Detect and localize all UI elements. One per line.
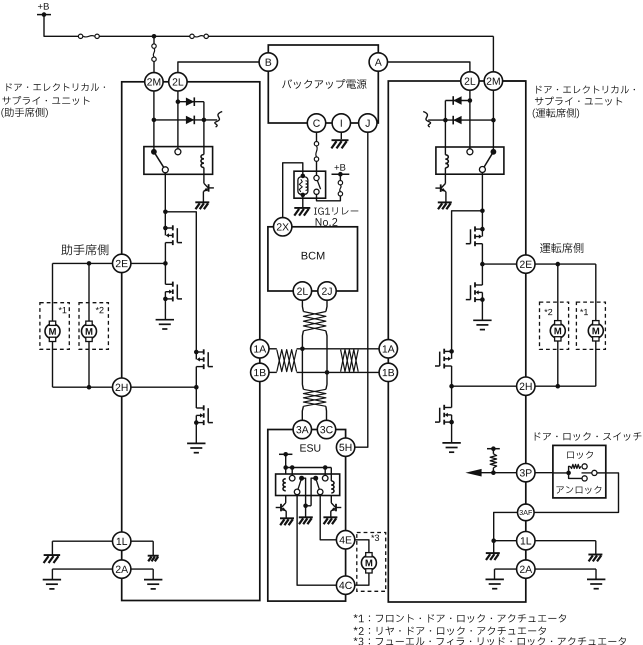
wire BCM 2J down [326,291,327,312]
junction 2H right [449,384,454,389]
label left unit line3 [1,108,47,118]
junction diode out right [443,118,448,123]
wire diode row2 right [428,119,493,121]
pin 3A ESU [293,420,311,438]
left relay output contact [162,167,168,173]
right relay output contact [479,167,485,173]
wire motor *2 right feed [557,264,559,321]
junction left 2L diode row [176,99,181,104]
wire lock common [553,472,569,474]
junction right 2L diode row [468,98,473,103]
wire 3P internal [481,472,526,474]
wire 2E internal [122,262,166,264]
inline connector pair on +B rail (left) [78,34,99,38]
wire right 2L column [469,81,471,149]
wire drop to left 2M with connector [152,36,156,82]
label passenger side [61,244,108,255]
wire branch to pair2 right [452,211,483,352]
backup power unit box [268,45,378,123]
wire BCM 2X to IG1 coil [283,163,303,227]
right relay fixed contact [467,149,473,155]
wire left switch out [164,172,166,228]
dashed box actuator *1 right [576,302,605,349]
wire motor *2 left return [88,341,90,387]
wire I to ground [340,123,342,139]
label *2 left [96,307,104,313]
MOSFET Q3 right [435,349,454,369]
wire motor *2 left feed [88,263,90,321]
diode D2 right [453,116,461,125]
wire right 2M column [492,81,494,152]
label backup power [282,79,366,89]
power bar 3P pull-up [487,446,500,451]
motor M *2 right [550,321,565,341]
MOSFET Q4 right [435,405,454,425]
junction right switch out [480,209,485,214]
power +B for IG1 [332,164,350,176]
right door electrical supply unit box [388,81,526,602]
wire 2H internal right [452,385,526,387]
wire ESU coil L down [285,496,287,503]
wire Q2 to ground right [481,300,483,320]
wire to coil right [444,101,446,155]
wire diode row1 [178,101,204,103]
dashed box actuator *2 right [540,302,569,349]
node 1B horizontal wire [297,371,341,373]
door lock switch box [553,445,606,498]
power bar in ESU [279,452,292,457]
pin 1L left [113,532,131,550]
label BCM [302,252,325,260]
motor M *1 right [588,321,603,341]
junction 2H left [194,385,199,390]
label door lock switch [535,432,642,441]
wire ESU pivots tied [302,478,316,506]
junction rail left coil [283,465,288,470]
wire branch to pair2 [165,212,196,352]
ground right relay [438,202,452,209]
label right unit line2 [535,97,622,106]
pin 2H left [113,378,131,396]
ESU relay coil R [331,481,334,493]
wire 2H external right [526,385,596,387]
ESU relay coil L [283,479,286,491]
arrow continuation 3P [465,469,481,477]
junction 3AF 1L [491,538,496,543]
left door electrical supply unit box [122,82,260,601]
junction motor *2 left bottom [87,385,92,390]
transistor right relay [435,184,446,192]
wire to ground ESU right [330,511,332,517]
pin 3P right [517,464,535,482]
label *1 right [580,309,588,315]
left relay coil [201,155,204,168]
wire ESU coil R down [330,496,332,503]
junction left 2M diode row [152,118,157,123]
wire motor *3 to 4C [346,572,369,586]
ground 1L external right [588,555,602,562]
diode D1 left [186,97,194,106]
footnote *1 [354,614,567,623]
ground 2A external right [587,579,605,588]
diode D1 right [453,96,461,105]
MOSFET Q1 left [163,225,182,245]
node 1A horizontal wire [297,348,341,350]
node B [259,53,277,71]
wire Q4 to ground [195,423,197,443]
wire 4E to motor *3 [346,540,369,554]
wire right coil down [444,168,446,184]
wire motor *1 left return [52,341,54,387]
pin J backup [359,114,377,132]
wire 2H internal [122,386,197,388]
wire junction to ground [493,541,495,553]
pin 5H ESU [336,438,354,456]
junction diode out left [202,118,207,123]
label right unit line3 [533,108,579,118]
power +B symbol [37,3,51,17]
label left unit line1 [6,83,105,91]
BCM box [268,227,358,291]
junction 2E left [163,261,168,266]
pin 3AF right [518,504,535,521]
junction 3P resistor [491,470,496,475]
IG1 relay box [294,171,326,198]
junction ESU pivot net [303,504,308,509]
IG1 relay coil with resistor [298,174,308,198]
wire 2A internal right [495,569,526,579]
ground 2A internal right [486,579,504,588]
wire trunk to ESU [302,385,327,421]
ground ESU center [299,517,313,524]
wire lock to 3AF [526,473,619,513]
junction left switch out [163,210,168,215]
ground under I [331,140,348,148]
wire 1L internal right [494,540,526,542]
label ESU [300,444,320,451]
left relay fixed contact [175,149,181,155]
wire motor *1 left feed [52,263,54,321]
ground 1L external left [44,555,61,563]
junction motor *2 right top [556,262,561,267]
squiggle continuation left [215,112,222,128]
pin 4E ESU [336,531,354,549]
ESU relay box [276,474,340,496]
wire +B rail [44,15,493,81]
pin 2J BCM [318,282,336,300]
wire 2H external [53,386,122,388]
label right unit line1 [536,86,635,94]
wire 2A external [52,569,121,579]
wire ESU switch R to 4E [320,495,345,540]
label driver side [540,243,583,253]
wire 1L external right [526,541,596,554]
label *1 left [59,307,67,313]
pin 2A right [517,560,535,578]
unlock contact [569,473,588,481]
ESU relay switch levers [298,476,320,490]
ground Q2 left [156,320,174,329]
pin 1L right [517,532,535,550]
IG1 relay switch [314,175,321,194]
pin 2E left [113,254,131,272]
label unlock [556,486,601,494]
wire to coil left [203,102,205,155]
wire to ground ESU left [285,511,287,518]
wire ESU power rail [286,454,332,481]
pin 1A right [379,340,397,358]
pin 1B left [251,363,269,381]
wire Q2 to ground [164,299,166,319]
wire J to ESU 5H [346,123,368,447]
ground left relay [195,202,209,209]
junction motor *2 right bottom [556,384,561,389]
ESU relay contacts [289,475,328,494]
label *2 right [544,309,552,315]
wire 1L external [52,541,121,555]
wire pivot net to ground [305,506,307,517]
label No.2 [316,218,338,226]
pin 2L left unit [169,73,187,91]
MOSFET Q2 left [163,282,182,302]
dashed box actuator *1 left [40,303,69,350]
MOSFET Q2 right [466,282,485,302]
twisted pair BCM to trunk [303,312,326,331]
junction 2E right [480,262,485,267]
wire ESU switch L to 4C [297,495,346,586]
ground Q2 right [473,320,491,329]
right relay lever [484,154,492,167]
lock lever [582,470,598,475]
wire left 2L column [177,82,179,149]
wire 2A external right [526,569,596,579]
wire 3P to lock switch [526,472,553,474]
wire diode row2 [154,119,217,121]
pin 2E right [517,255,535,273]
pin 3C ESU [317,420,335,438]
MOSFET Q3 left [194,349,213,369]
wire lock output [597,472,606,474]
wire IG1 coil to ground [302,195,304,208]
motor M *1 left [45,321,60,341]
squiggle continuation right [423,112,430,128]
ground Q4 left [187,443,205,452]
right relay coil [445,155,448,168]
label IG1 relay [314,207,358,215]
transistor left relay [203,183,214,191]
pin 1A left [251,340,269,358]
wire 3AF to ground junction [494,512,518,540]
diode D2 left [186,116,194,125]
left relay box [144,147,213,175]
wire C to IG1 relay switch [314,123,318,176]
wire right 2M stub [493,80,525,82]
wire B to left unit 2L [178,62,268,82]
junction motor *2 left top [87,261,92,266]
footnote *3 [354,637,626,645]
ground 2A internal [144,580,162,589]
left relay pivot [151,149,157,155]
pin 2X BCM [274,218,292,236]
inline connector pair on +B rail (right) [190,34,209,38]
wire Q4 to ground right [451,422,453,442]
resistor 3P pull-up [490,449,496,468]
pin 2A left [113,560,131,578]
wire right switch out [481,172,483,229]
wire BCM 2L down [302,291,303,312]
wire 2E external right [526,263,596,265]
wire Q3-Q4 [195,367,197,408]
pin 2L right unit [461,72,479,90]
junction lock common [566,471,571,476]
twisted pair to right 1A/1B [341,349,380,373]
pin I backup [332,114,350,132]
ground ESU left [280,518,294,525]
pin 2L BCM [293,282,311,300]
junction trunk 1B [325,370,330,375]
dashed box fuel lid actuator *3 [357,533,386,592]
pin 2M left unit [145,73,163,91]
junction rail right contact [323,465,328,470]
wire resistor to 3P line [492,468,494,473]
junction rail left contact [290,465,295,470]
node A [369,53,387,71]
wire left coil down [203,168,205,184]
dashed box actuator *2 left [79,303,108,350]
left relay lever [155,154,164,168]
pin 4C ESU [336,576,354,594]
ground 1L internal [148,556,159,562]
wire motor *1 right feed [595,264,597,321]
MOSFET Q4 left [194,405,213,425]
wire motor *1 right return [595,341,597,387]
pin 1B right [379,363,397,381]
ground Q4 right [442,443,460,452]
wire left relay transistor to ground [202,192,204,202]
pin 2M right unit [484,72,502,90]
lock contact resistor [569,464,588,473]
wire left 2M column [153,82,155,152]
wire 2E internal right [482,263,525,265]
junction trunk 1A [300,347,305,352]
wire diode row1 right [445,100,470,102]
ground ESU right [323,517,337,524]
ground 1L internal right [486,553,500,560]
wire motor *2 right return [557,341,559,387]
pin C backup [307,114,325,132]
right relay box [436,147,504,174]
wire Q3-Q4 right [451,366,453,408]
ESU box [268,430,346,602]
wire right relay transistor to ground [445,192,447,202]
wire Q1-Q2 [164,243,166,285]
wire 2E external [53,262,122,264]
junction right 2M diode row [491,118,496,123]
right relay pivot [491,149,497,155]
label lock [567,451,593,459]
wire Q1-Q2 right [481,244,483,285]
pin 2H right [517,377,535,395]
wire +B to IG1 switch [317,174,343,201]
transistor ESU left [276,503,287,511]
wire 1L internal [122,541,154,555]
wire trunk join top [302,331,327,385]
ground 2A external left [43,580,61,589]
label left unit line2 [2,96,89,105]
motor M *2 left [82,321,97,341]
twisted pair to left 1A/1B [269,349,296,373]
ground IG1 coil [294,208,310,216]
footnote *2 [354,626,546,635]
wire 2A internal [122,569,154,579]
wire A to right unit 2L [378,62,470,81]
motor M *3 [361,553,376,573]
transistor ESU right [331,503,342,511]
label *3 [371,535,379,541]
MOSFET Q1 right [466,226,485,246]
junction +B rail to left unit [152,34,157,39]
